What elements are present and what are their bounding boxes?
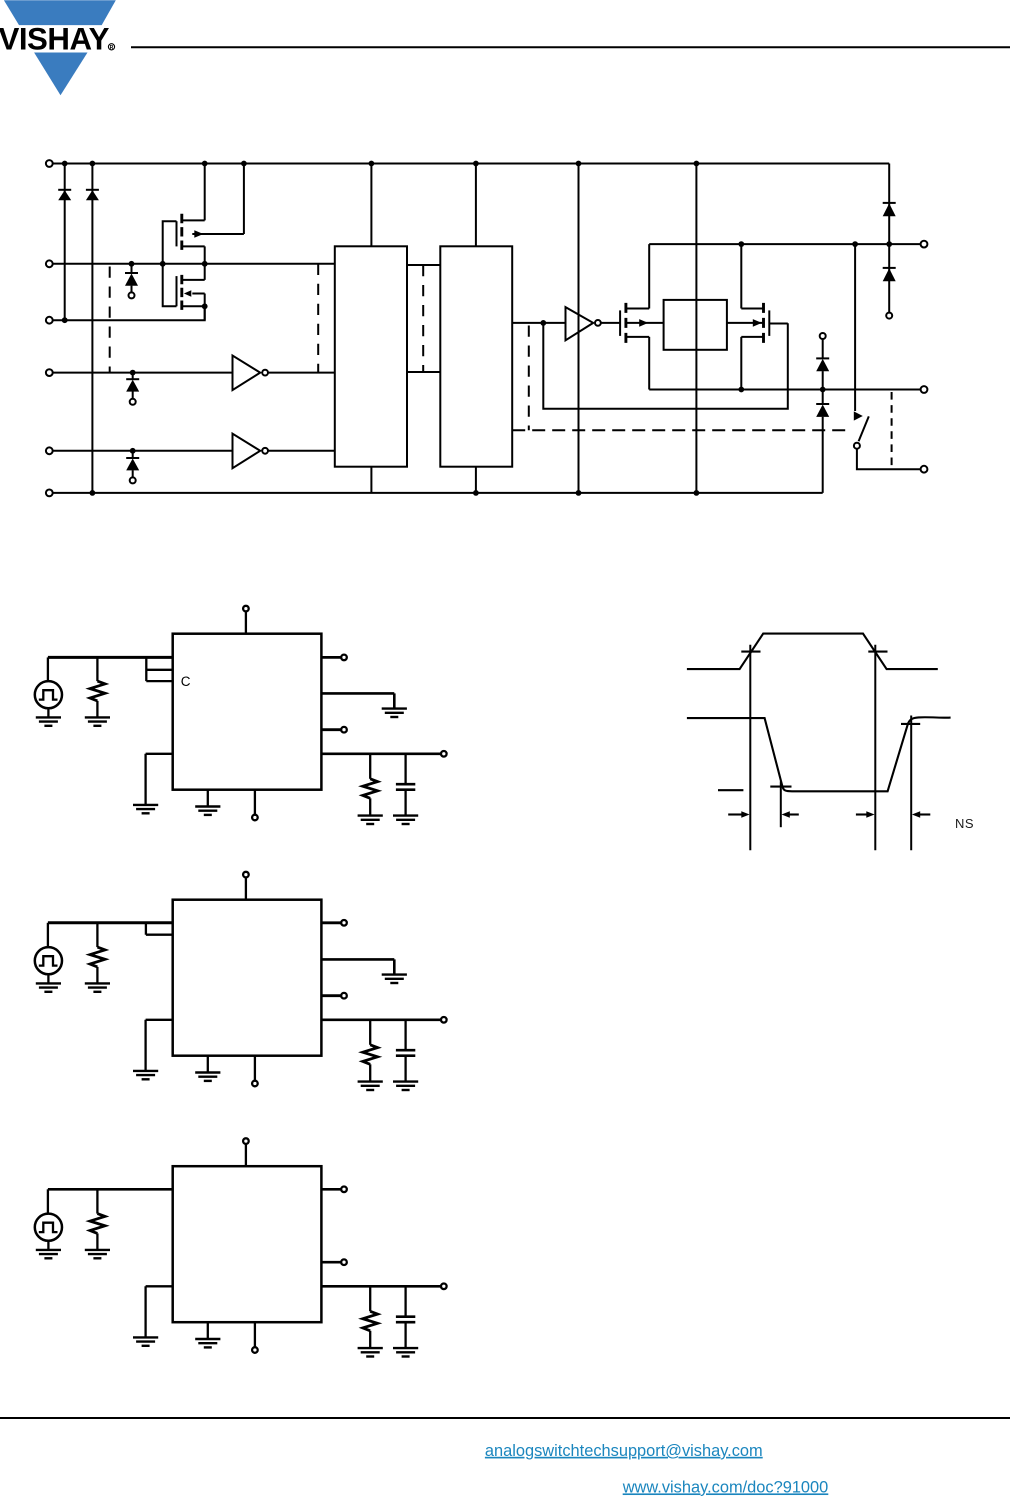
pin right C bbox=[321, 993, 346, 999]
pulse source V3 bbox=[35, 1189, 62, 1250]
wire block2 to inverter U5 bbox=[512, 322, 565, 324]
ground below CL2 bbox=[393, 1082, 418, 1090]
wire block2 V- bbox=[475, 467, 477, 493]
switch body box bbox=[664, 300, 727, 350]
pin right A bbox=[321, 655, 346, 661]
wire block1 V- bbox=[370, 467, 372, 493]
wire switch to terminal bbox=[857, 449, 921, 470]
dashed control line bbox=[512, 429, 852, 431]
wire V- bottom rail bbox=[53, 492, 823, 494]
ground below R1 bbox=[85, 717, 110, 725]
vishay logo top trapezoid bbox=[4, 0, 116, 25]
switch SW blade bbox=[859, 416, 869, 441]
wire input bbox=[48, 921, 173, 924]
wire IN3 row bbox=[53, 450, 233, 452]
DUT box U2 bbox=[173, 900, 322, 1056]
terminal S bbox=[921, 386, 928, 393]
vishay logo bottom triangle bbox=[34, 53, 87, 96]
switch SW contact arrow bbox=[854, 411, 863, 420]
measure line t1 bbox=[749, 645, 751, 851]
resistor RL bbox=[363, 754, 378, 816]
header rule bbox=[131, 46, 1010, 48]
pin V+ top bbox=[243, 1138, 249, 1166]
clamp diode K3 bbox=[126, 451, 139, 484]
transistor Q1 P-channel bbox=[177, 164, 244, 280]
clamp diode K1 bbox=[125, 264, 138, 299]
ground below V3 bbox=[36, 1250, 61, 1258]
svg-text:analogswitchtechsupport@vishay: analogswitchtechsupport@vishay.com bbox=[485, 1442, 763, 1460]
wire IN1 row bbox=[53, 263, 335, 265]
capacitor CL2 bbox=[396, 1020, 415, 1082]
pulse source V2 bbox=[35, 923, 62, 984]
terminal V- bbox=[46, 490, 53, 497]
waveform switch output bbox=[687, 717, 951, 791]
pin left lower bbox=[146, 754, 173, 805]
ground bottom pin bbox=[195, 807, 220, 815]
svg-text:www.vishay.com/doc?91000: www.vishay.com/doc?91000 bbox=[622, 1478, 829, 1496]
pin bottom GND bbox=[207, 1056, 209, 1073]
pin left lower bbox=[146, 1020, 173, 1071]
gate bracket wire bbox=[163, 221, 177, 306]
ground below RL2 bbox=[358, 1082, 383, 1090]
waveform logic input bbox=[687, 634, 938, 670]
diode D2 bbox=[86, 190, 99, 200]
terminal IN3 bbox=[46, 447, 53, 454]
ground below RL3 bbox=[358, 1348, 383, 1356]
junction dots IN1 row bbox=[129, 261, 208, 267]
capacitor CL3 bbox=[396, 1286, 415, 1348]
wire block1-block2 lower bbox=[407, 371, 440, 373]
feedback gate wire bbox=[543, 323, 788, 409]
svg-text:R: R bbox=[110, 45, 114, 51]
ground below CL3 bbox=[393, 1348, 418, 1356]
dashed switch link bbox=[891, 392, 893, 469]
terminal IN2 bbox=[46, 369, 53, 376]
dashed repeat line at block1 input bbox=[317, 264, 319, 373]
capacitor CL bbox=[396, 754, 415, 816]
wire block1-block2 upper bbox=[407, 264, 440, 266]
wire output bbox=[321, 1284, 446, 1290]
footer rule bbox=[0, 1417, 1010, 1419]
svg-text:VISHAY: VISHAY bbox=[0, 22, 110, 57]
wire input bracket pin bbox=[146, 923, 173, 935]
wire V+ to V- vertical 1 bbox=[578, 164, 580, 493]
wire output bbox=[321, 1017, 446, 1023]
inverter U2 bbox=[233, 434, 335, 469]
ground left pin bbox=[133, 1337, 158, 1345]
pin right A bbox=[321, 920, 346, 926]
wire diode branch 2 bbox=[91, 164, 93, 493]
wire output bbox=[321, 751, 446, 757]
transistor Q2 N-channel bbox=[177, 275, 205, 320]
pin right C bbox=[321, 727, 346, 733]
terminal D bbox=[921, 241, 928, 248]
diode chain D5 bbox=[816, 333, 829, 390]
measure line t3 bbox=[874, 645, 876, 851]
diode D1 bbox=[58, 190, 71, 200]
arrow t-off right bbox=[912, 811, 930, 818]
ground left pin bbox=[133, 805, 158, 813]
pin right C bbox=[321, 1259, 346, 1265]
ground left pin bbox=[133, 1071, 158, 1079]
arrow t-off left bbox=[856, 811, 875, 818]
zero reference line bbox=[718, 789, 743, 791]
pin right B to ground bbox=[321, 959, 394, 974]
ground below R3 bbox=[85, 1250, 110, 1258]
arrow t-on right bbox=[782, 811, 799, 818]
inverter U5 bbox=[566, 307, 621, 340]
terminal SW out bbox=[921, 466, 928, 473]
transistor Q3 switch N-channel bbox=[620, 244, 664, 389]
ground below R2 bbox=[85, 983, 110, 991]
pin bottom V- bbox=[252, 1056, 258, 1087]
block U3 decoder bbox=[335, 246, 407, 466]
diode D4 bbox=[883, 244, 896, 319]
wire right diode branch bbox=[888, 164, 890, 245]
pin bottom V- bbox=[252, 1322, 258, 1353]
resistor R3 bbox=[90, 1189, 105, 1250]
junction dots right section bbox=[540, 241, 892, 392]
pin bottom GND bbox=[207, 1322, 209, 1339]
pulse source V1 bbox=[35, 657, 62, 717]
inverter U1 bbox=[233, 356, 335, 391]
pin right A bbox=[321, 1187, 346, 1193]
measure line t4 bbox=[910, 716, 912, 851]
DUT box U5 bbox=[173, 1166, 322, 1322]
tick crossing output rising bbox=[901, 723, 920, 725]
tick crossing rising edge bbox=[741, 651, 760, 653]
ground bottom pin bbox=[195, 1073, 220, 1081]
switch SW pole wire bbox=[854, 244, 856, 411]
DUT box U1 bbox=[173, 634, 322, 790]
pin left lower bbox=[146, 1286, 173, 1337]
dashed control line to block2 bbox=[528, 326, 530, 431]
resistor RL2 bbox=[363, 1020, 378, 1082]
wire diode branch 1 bbox=[64, 164, 66, 321]
svg-text:C: C bbox=[181, 674, 191, 689]
resistor R2 bbox=[90, 923, 105, 984]
registered trademark symbol bbox=[108, 44, 114, 50]
ground pin B bbox=[382, 709, 407, 717]
resistor RL3 bbox=[363, 1286, 378, 1348]
diode chain D6 bbox=[816, 390, 829, 493]
transistor Q4 switch P-channel bbox=[727, 244, 788, 389]
dashed repeat line between blocks bbox=[422, 265, 424, 372]
block U4 driver bbox=[440, 246, 512, 466]
pin bottom V- bbox=[252, 790, 258, 821]
tick crossing output falling bbox=[770, 786, 791, 788]
tick crossing falling edge bbox=[868, 651, 887, 653]
resistor R1 bbox=[90, 657, 105, 717]
measure line t2 bbox=[780, 781, 782, 827]
wire input bbox=[48, 1188, 173, 1191]
dashed repeat line left bbox=[109, 267, 111, 373]
wire input bbox=[48, 656, 173, 659]
ground pin B bbox=[382, 975, 407, 983]
pin V+ top bbox=[243, 872, 249, 900]
clamp diode K2 bbox=[126, 373, 139, 405]
wire block1 V+ bbox=[370, 164, 372, 247]
terminal V+ bbox=[46, 160, 53, 167]
ground below CL bbox=[393, 816, 418, 824]
wire V+ top rail bbox=[53, 163, 889, 165]
terminal GND bbox=[46, 317, 53, 324]
wire switch output top bbox=[649, 243, 920, 245]
junction dots bottom rail bbox=[90, 490, 700, 496]
wire input bracket pins bbox=[146, 657, 172, 681]
ground below RL bbox=[358, 816, 383, 824]
ground bottom pin bbox=[195, 1339, 220, 1347]
wire switch output bottom bbox=[649, 389, 920, 391]
pin right B to ground bbox=[321, 693, 394, 708]
switch SW throw circle bbox=[854, 443, 860, 449]
pin bottom GND bbox=[207, 790, 209, 807]
wire block2 V+ bbox=[475, 164, 477, 247]
wire IN2 row bbox=[53, 372, 233, 374]
ground below V2 bbox=[36, 983, 61, 991]
pin V+ top bbox=[243, 606, 249, 634]
junction dots top rail bbox=[62, 161, 700, 167]
wire V+ to V- vertical 2 bbox=[695, 164, 697, 493]
wire GND row bbox=[53, 306, 205, 320]
ground below V1 bbox=[36, 717, 61, 725]
diode D3 bbox=[883, 203, 896, 216]
arrow t-on left bbox=[728, 811, 749, 818]
junction dots misc left bbox=[62, 303, 208, 453]
svg-text:NS: NS bbox=[955, 816, 974, 831]
terminal IN1 bbox=[46, 260, 53, 267]
